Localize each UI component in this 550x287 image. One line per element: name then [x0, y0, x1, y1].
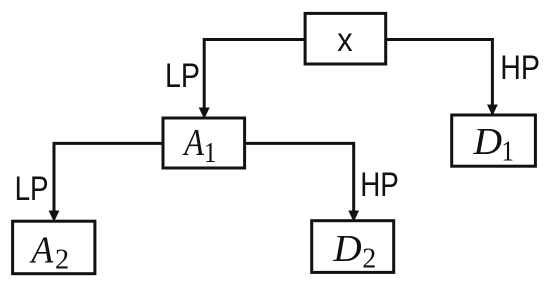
arrowhead into A1 — [199, 108, 210, 120]
svg-text:D: D — [332, 229, 361, 270]
svg-text:LP: LP — [15, 170, 49, 208]
wire x to A1 (LP branch) — [204, 40, 305, 112]
svg-text:2: 2 — [55, 245, 69, 276]
svg-text:x: x — [337, 21, 353, 58]
wire A1 to A2 (LP branch) — [54, 143, 163, 214]
svg-text:1: 1 — [204, 137, 217, 169]
wire x to D1 (HP branch) — [386, 40, 493, 109]
arrowhead into D1 — [487, 105, 498, 117]
svg-text:2: 2 — [362, 243, 376, 274]
wire A1 to D2 (HP branch) — [245, 143, 354, 214]
svg-text:HP: HP — [360, 166, 399, 204]
svg-text:HP: HP — [500, 49, 540, 87]
box D1 — [452, 115, 536, 166]
arrowhead into D2 — [348, 211, 359, 223]
svg-text:LP: LP — [165, 57, 200, 95]
box A2 — [13, 221, 95, 274]
svg-text:A: A — [182, 122, 204, 164]
svg-text:A: A — [28, 229, 53, 271]
box x — [305, 13, 386, 64]
box D2 — [312, 221, 394, 273]
box A1 — [163, 118, 245, 168]
svg-text:1: 1 — [501, 135, 514, 167]
svg-text:D: D — [472, 121, 502, 163]
arrowhead into A2 — [49, 211, 60, 223]
